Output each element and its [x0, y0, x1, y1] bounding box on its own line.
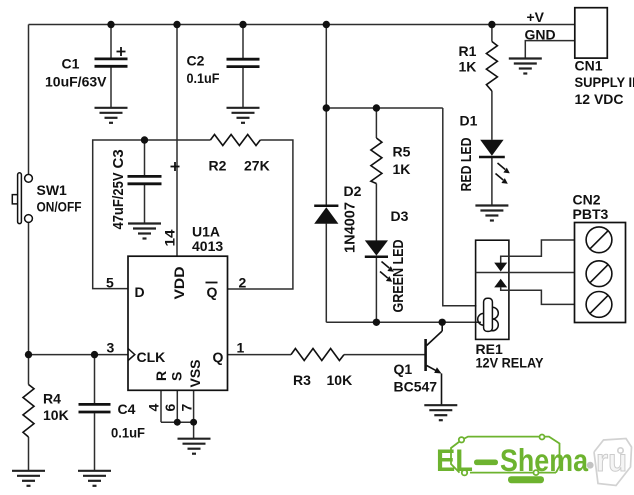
- ground (CN1): [509, 59, 542, 74]
- svg-text:RED LED: RED LED: [458, 137, 475, 191]
- ground (C2): [227, 108, 260, 123]
- svg-text:10K: 10K: [43, 407, 69, 423]
- resistor R2: [210, 135, 260, 146]
- CN2 screw terminal 3: [586, 292, 612, 318]
- node top rail at pin14: [173, 21, 180, 28]
- wire D1 cathode to ground: [491, 157, 493, 205]
- svg-text:2: 2: [239, 275, 247, 291]
- wire top +V rail: [29, 24, 575, 26]
- CN2 screw terminal 2: [586, 261, 612, 287]
- node CLK at SW1 rail: [25, 351, 32, 358]
- svg-text:0.1uF: 0.1uF: [111, 425, 145, 441]
- svg-text:C3: C3: [110, 149, 127, 168]
- ground (C1): [95, 108, 128, 123]
- resistor R3: [291, 349, 344, 361]
- svg-text:R2: R2: [209, 158, 227, 174]
- node CLK at C4: [91, 351, 98, 358]
- wire relay NO to CN2 bottom terminal: [501, 287, 575, 304]
- switch SW1: [12, 173, 32, 224]
- node top rail at R1: [488, 21, 495, 28]
- wire C3 stub: [144, 140, 146, 175]
- resistor R4: [23, 385, 34, 438]
- wire right branch vertical: [443, 108, 477, 306]
- node R5 branch: [373, 104, 380, 111]
- relay RE1: [476, 240, 509, 339]
- wire CLK net: [29, 354, 129, 356]
- wire left rail down to SW1: [28, 25, 30, 175]
- clock triangle pin3: [128, 349, 135, 361]
- svg-text:VDD: VDD: [171, 267, 187, 300]
- svg-text:0.1uF: 0.1uF: [187, 70, 220, 86]
- diode D2 1N4007: [314, 207, 338, 224]
- wire U1A pin6 stub: [176, 390, 178, 422]
- node pin6 ground join: [174, 419, 181, 426]
- svg-text:47uF/25V: 47uF/25V: [110, 173, 127, 230]
- svg-text:C1: C1: [62, 56, 80, 72]
- svg-text:Q: Q: [213, 349, 224, 365]
- svg-text:D: D: [135, 284, 145, 300]
- capacitor C3: [128, 176, 162, 183]
- CN2 screw terminal 1: [586, 227, 612, 253]
- capacitor C2: [227, 59, 260, 66]
- node D2/R5 horizontal left: [323, 104, 330, 111]
- capacitor C4: [79, 404, 111, 412]
- wire C1 to ground: [110, 68, 112, 108]
- node bottom net at D3: [373, 319, 380, 326]
- wire SW1 to CLK junction: [28, 222, 30, 354]
- svg-text:5: 5: [106, 275, 114, 291]
- wire R5 top stub: [375, 108, 377, 138]
- wire R4 to ground: [28, 437, 30, 470]
- wire R2 right to pin2: [228, 140, 293, 289]
- svg-text:1K: 1K: [459, 59, 477, 75]
- wire horizontal D2/R5 node: [326, 107, 443, 109]
- logo EL-Shema.ru: [436, 435, 632, 486]
- svg-text:4013: 4013: [192, 238, 223, 254]
- svg-text:VSS: VSS: [187, 359, 203, 387]
- wire R3 to Q1 base: [344, 354, 426, 356]
- wire R1 top stub: [491, 25, 493, 42]
- svg-text:BC547: BC547: [394, 379, 438, 395]
- ground (C4): [78, 471, 111, 486]
- node top rail at D2 branch: [323, 21, 330, 28]
- wire C4 stub: [94, 355, 96, 404]
- svg-text:Q: Q: [207, 284, 218, 300]
- wire U1A ground stem: [193, 422, 195, 438]
- wire D2 bottom: [325, 224, 327, 323]
- wire bottom net to relay coil: [326, 321, 481, 323]
- svg-text:27K: 27K: [244, 158, 270, 174]
- svg-text:7: 7: [179, 404, 195, 412]
- LED D3 GREEN: [365, 240, 388, 255]
- wire relay common to CN2 middle: [476, 272, 575, 274]
- wire C3 to ground: [144, 185, 146, 223]
- wire pins 4-6-7 join: [161, 421, 194, 423]
- wire C4 to ground: [94, 413, 96, 470]
- svg-text:14: 14: [162, 229, 178, 246]
- resistor R5: [371, 138, 382, 184]
- svg-text:R: R: [153, 371, 169, 381]
- svg-text:GREEN LED: GREEN LED: [390, 239, 407, 312]
- wire D2 anode stub: [325, 108, 327, 206]
- wire R4 stub: [28, 355, 30, 385]
- svg-text:R4: R4: [43, 391, 61, 407]
- wire CN1 GND: [525, 41, 575, 58]
- wire D2 branch top: [325, 25, 327, 109]
- wire R5 to D3: [375, 184, 377, 241]
- relay coil: [478, 307, 499, 331]
- svg-text:GND: GND: [525, 27, 556, 43]
- svg-text:ON/OFF: ON/OFF: [37, 199, 82, 215]
- ground (R4): [12, 471, 45, 486]
- svg-text:12V RELAY: 12V RELAY: [476, 355, 545, 371]
- connector CN1: [575, 8, 608, 58]
- svg-text:10K: 10K: [327, 372, 353, 388]
- wire VDD pin14: [176, 25, 178, 257]
- IC U1A 4013: [128, 256, 228, 390]
- node bottom net at Q1 collector: [439, 319, 446, 326]
- node top rail at C2: [239, 21, 246, 28]
- wire C2 stub: [242, 25, 244, 59]
- transistor Q1 BC547: [424, 339, 427, 371]
- svg-text:SW1: SW1: [37, 182, 68, 198]
- svg-text:C4: C4: [118, 401, 136, 417]
- node C3 top: [141, 136, 148, 143]
- svg-text:1K: 1K: [393, 161, 411, 177]
- node pin7 ground join: [190, 419, 197, 426]
- svg-text:D2: D2: [344, 183, 362, 199]
- svg-text:EL: EL: [436, 442, 473, 478]
- relay NO contact arrow: [494, 279, 507, 288]
- svg-text:1N4007: 1N4007: [342, 202, 359, 253]
- wire U1A pin4 stub: [160, 390, 162, 422]
- wire R1 to D1: [491, 91, 493, 140]
- ground (D1): [475, 206, 508, 221]
- svg-text:D1: D1: [460, 113, 478, 129]
- svg-text:12 VDC: 12 VDC: [575, 91, 624, 107]
- svg-text:SUPPLY IN: SUPPLY IN: [575, 74, 634, 90]
- svg-text:D3: D3: [391, 208, 409, 224]
- svg-text:S: S: [169, 372, 185, 381]
- svg-text:CLK: CLK: [137, 349, 166, 365]
- svg-text:R5: R5: [393, 144, 411, 160]
- connector CN2: [575, 223, 626, 323]
- svg-text:6: 6: [162, 404, 178, 412]
- svg-text:+V: +V: [527, 9, 545, 25]
- svg-text:Q1: Q1: [394, 361, 413, 377]
- svg-text:3: 3: [107, 340, 115, 356]
- svg-text:ru: ru: [596, 442, 627, 478]
- wire Q output to R3: [228, 354, 292, 356]
- wire U1A pin7 stub: [193, 390, 195, 422]
- svg-text:CN1: CN1: [575, 58, 603, 74]
- resistor R1: [486, 42, 497, 92]
- wire pin5 D input: [93, 140, 211, 289]
- wire C2 to ground: [242, 68, 244, 108]
- wire CN2 top terminal to relay NC contact: [501, 240, 575, 264]
- svg-text:1: 1: [237, 340, 245, 356]
- svg-text:Shema: Shema: [500, 442, 588, 478]
- svg-text:C2: C2: [187, 53, 205, 69]
- svg-text:PBT3: PBT3: [573, 206, 609, 222]
- svg-text:4: 4: [146, 404, 162, 412]
- wire D3 cathode to bottom net: [375, 257, 377, 323]
- LED D1 RED: [480, 140, 503, 156]
- ground (Q1): [424, 405, 457, 420]
- ground (C3): [128, 224, 161, 239]
- capacitor C1: [95, 59, 128, 66]
- wire C1 stub: [110, 25, 112, 58]
- ground (U1A): [178, 439, 211, 454]
- relay NC contact arrow: [494, 263, 507, 272]
- svg-text:R3: R3: [293, 372, 311, 388]
- svg-text:10uF/63V: 10uF/63V: [45, 74, 107, 90]
- svg-text:R1: R1: [459, 43, 477, 59]
- node top rail at C1: [107, 21, 114, 28]
